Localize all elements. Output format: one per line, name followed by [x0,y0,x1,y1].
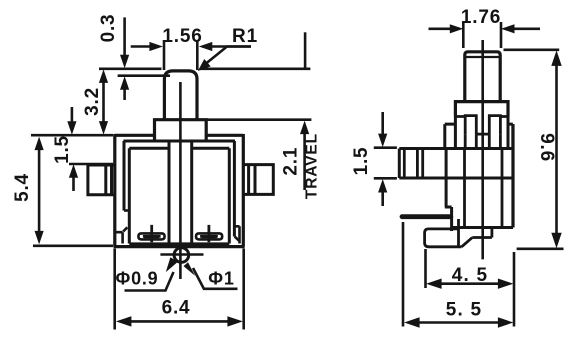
terminal row bottom line [399,177,513,180]
svg-text:1.56: 1.56 [162,26,202,47]
svg-text:3.2: 3.2 [82,87,103,116]
dim 5.5 line [415,321,502,324]
tab bridge [465,134,500,148]
svg-text:R1: R1 [232,26,258,47]
dim 0.3 upper arrow [123,17,126,55]
terminal tip cap [398,149,401,179]
dim 6.4 line [128,320,230,323]
dim 3.2 [102,80,105,124]
svg-text:9.6: 9.6 [536,133,557,162]
dim 9.6 line [555,60,558,238]
center line [179,82,182,279]
terminal inner lines [404,149,422,179]
svg-text:5. 5: 5. 5 [446,300,483,321]
svg-text:Φ0.9: Φ0.9 [116,269,159,289]
pin circle crosshair [160,253,203,256]
dim 6.4 extension lines [115,249,244,330]
svg-text:1.5: 1.5 [351,147,372,176]
right plunger [466,56,500,58]
body bottom extension line [33,245,113,248]
left contact stadium [138,233,164,239]
inner bottom plate [129,242,229,246]
dim 9.6 extension top [504,48,560,51]
inner box row 2 [129,148,229,243]
svg-text:TRAVEL: TRAVEL [303,133,320,199]
leader dia 0.9 [125,272,174,291]
travel flange extension line [206,118,311,121]
body inner verticals [465,149,503,229]
right contact bar [202,235,217,238]
right side terminal [243,165,273,195]
left side terminal [88,165,115,195]
dim 5.4 [38,147,41,234]
svg-text:0.3: 0.3 [98,14,119,43]
lead line [402,214,451,219]
1.5 lower extension line [69,163,113,166]
ears step [445,124,513,148]
body top extension line [31,134,113,137]
shaft sides [169,141,192,244]
plunger dome outline [164,71,197,120]
dim 1.56 line and arrows [131,45,251,48]
dim 4.5 line [437,282,502,285]
dim 9.6 extension bottom [517,248,564,251]
body bottom edge [451,226,513,229]
svg-text:1.5: 1.5 [52,135,73,164]
inner wall joins [124,209,129,212]
svg-text:1.76: 1.76 [461,7,501,28]
dim 1.76 [429,27,541,30]
flange cap [155,120,207,141]
terminal row top line / body top [399,147,513,150]
apex extension line [99,68,310,71]
svg-text:6.4: 6.4 [162,298,191,319]
dim 0.3 lower arrow [123,89,126,100]
dim 0.3 lower line [118,74,170,77]
guide tabs [465,116,500,135]
bottom pin circle [174,248,189,263]
dim 2.1 travel arrow [303,132,306,190]
foot bracket [425,219,462,247]
left contact cross [143,225,161,242]
bottom-left ledge [115,227,128,243]
body outer box [114,134,245,247]
svg-text:4. 5: 4. 5 [452,265,489,286]
dim 1.56 extension lines [164,40,197,70]
leader R1 [206,47,251,64]
dim 1.5 right view [381,112,384,135]
leader dia 1 [193,268,238,289]
left contact bar [144,235,159,238]
right flange [455,102,508,117]
dim 1.5 left arrows [71,107,74,123]
inner box row 1 [123,141,235,237]
travel upper tick [304,32,307,67]
bottom-right ledge [234,226,239,243]
bottom hook [462,228,492,247]
body sides [511,124,514,227]
svg-text:Φ1: Φ1 [208,269,234,289]
right contact cross [200,225,218,242]
svg-text:5.4: 5.4 [12,173,33,202]
right view center line [481,40,484,259]
svg-text:2.1: 2.1 [281,147,302,176]
right contact stadium [196,233,222,239]
dim 5.5 extension line [403,222,514,327]
dim 4.5 extension lines [426,249,515,288]
